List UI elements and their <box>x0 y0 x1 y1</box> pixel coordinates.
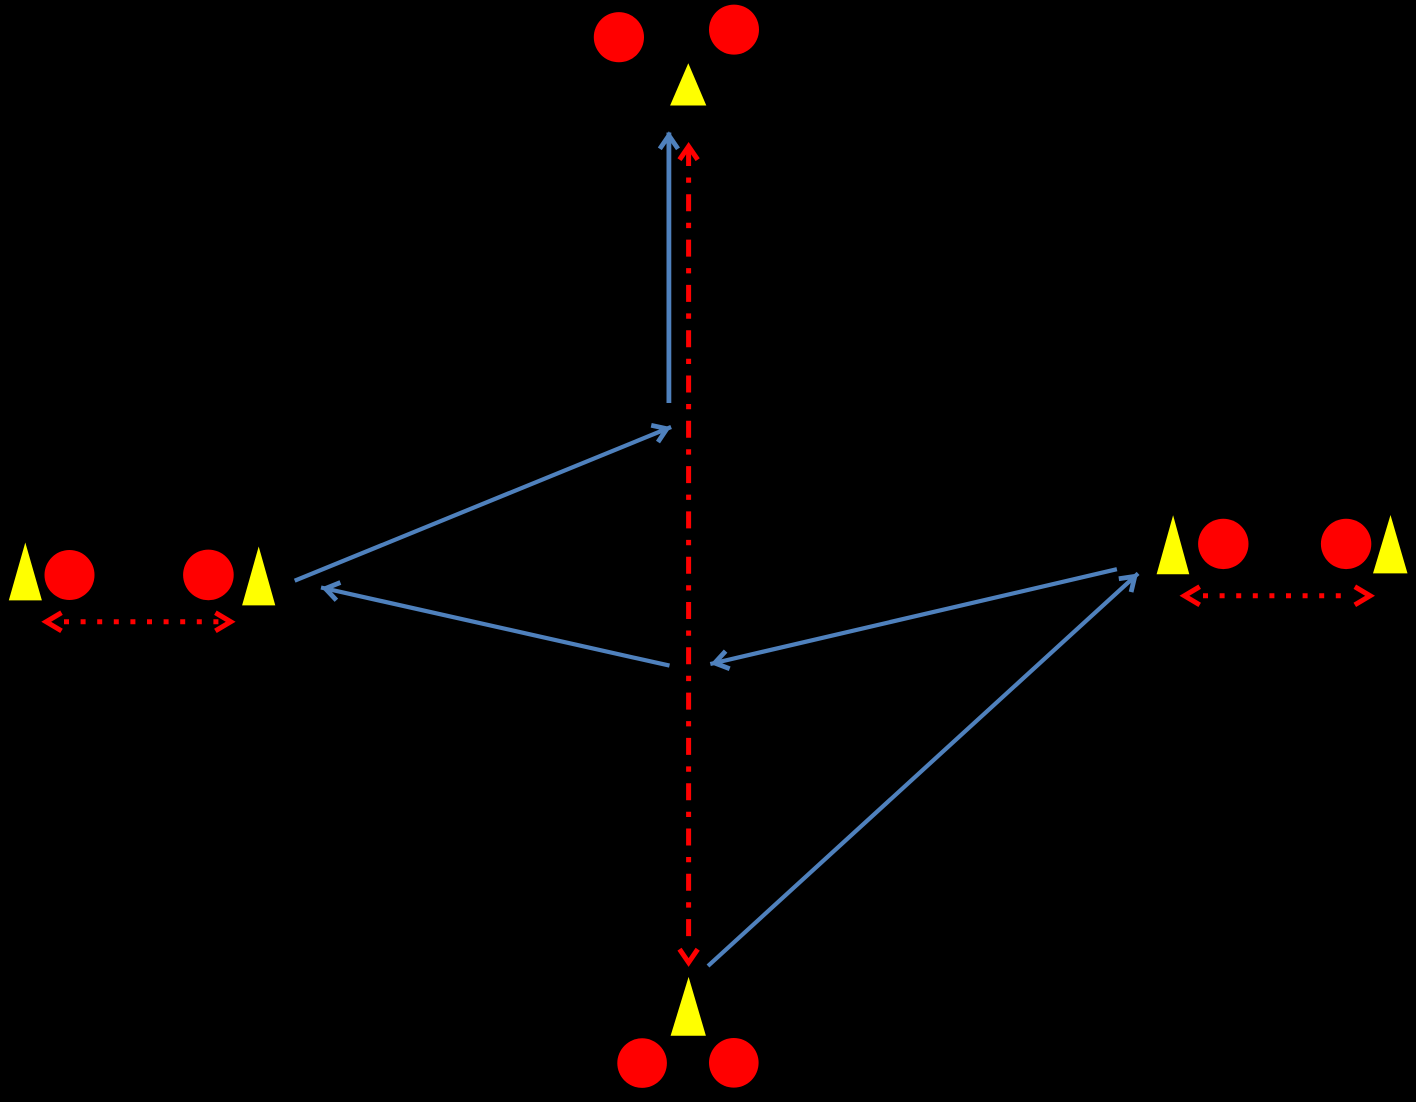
red arrowhead up <box>680 146 698 159</box>
blue vertical arrow shaft <box>667 133 672 404</box>
blue arrow left-group to center shaft <box>295 427 671 581</box>
blue arrow right-group to center head <box>715 651 730 669</box>
red arrowhead down <box>680 949 698 962</box>
blue arrow bottom-group to right-group shaft <box>708 573 1138 966</box>
red circle top-left player <box>594 12 644 62</box>
red dotted double arrow left-group right head <box>215 613 230 631</box>
yellow triangle cone right-group inner <box>1157 515 1190 574</box>
blue vertical arrow head <box>660 136 678 149</box>
yellow triangle cone right-group outer <box>1373 515 1408 573</box>
red circle bottom-left player <box>617 1038 667 1088</box>
red circle right-group inner-left player <box>1198 519 1248 569</box>
red dotted double arrow left-group left head <box>46 613 61 631</box>
blue arrow right-group to center shaft <box>710 569 1117 664</box>
yellow triangle cone bottom <box>671 977 706 1036</box>
blue arrow center to left-group head <box>325 583 340 601</box>
red dotted double arrow right-group right head <box>1355 587 1370 605</box>
red dash-dot vertical line <box>686 149 691 943</box>
red circle bottom-right player <box>709 1038 759 1088</box>
red dotted double arrow right-group line <box>1203 593 1352 598</box>
yellow triangle cone top <box>670 63 706 105</box>
blue arrow bottom-group to right-group head <box>1119 576 1135 592</box>
red circle left-group inner-left player <box>45 550 95 600</box>
red circle left-group inner-right player <box>183 550 234 601</box>
red dotted double arrow left-group line <box>64 619 221 624</box>
red dotted double arrow right-group left head <box>1184 587 1199 605</box>
yellow triangle cone left-group inner <box>242 547 275 606</box>
yellow triangle cone left-group outer <box>9 543 42 601</box>
blue arrow center to left-group shaft <box>321 588 670 666</box>
red circle right-group inner-right player <box>1321 519 1371 569</box>
blue arrow left-group to center head <box>651 425 667 442</box>
red circle top-right player <box>709 5 759 55</box>
